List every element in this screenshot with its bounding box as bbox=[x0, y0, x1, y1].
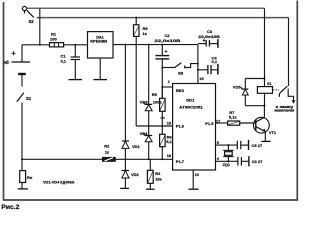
wire R1 to DA1 bbox=[64, 44, 88, 46]
wire rail down to VD1 bbox=[124, 45, 126, 141]
diode VD2 bbox=[122, 159, 140, 188]
capacitor C3 22,0x10В bbox=[198, 29, 220, 48]
wire Vcc to pin 20 bbox=[197, 45, 199, 84]
MCU DD1 AT89C2051 bbox=[173, 84, 216, 171]
ground R4 bbox=[146, 188, 155, 190]
ground pin 10 bbox=[189, 170, 199, 189]
svg-text:S2: S2 bbox=[29, 19, 35, 24]
svg-text:10к: 10к bbox=[155, 176, 161, 181]
node VD1/VD2 on P1.7 net bbox=[124, 158, 126, 160]
svg-text:RES: RES bbox=[176, 88, 185, 93]
wire XTAL2 pin 4 bbox=[216, 160, 238, 162]
svg-text:P1.5: P1.5 bbox=[205, 121, 214, 126]
wire bottom net to R2 bbox=[22, 158, 102, 160]
wire S2 to battery rail bbox=[39, 8, 41, 45]
switch S1 bbox=[17, 93, 32, 160]
svg-text:0,1: 0,1 bbox=[212, 59, 218, 64]
wire bus2 down to relay contact bbox=[288, 18, 290, 86]
svg-text:C5 27: C5 27 bbox=[252, 143, 263, 148]
resistor R6 5,1к bbox=[160, 126, 174, 159]
resistor R9 1к bbox=[134, 17, 149, 45]
resistor R1 100 bbox=[50, 32, 64, 47]
wire XTAL1 pin 5 bbox=[216, 144, 238, 146]
svg-text:C3: C3 bbox=[207, 29, 213, 34]
capacitor C5 27 bbox=[237, 140, 263, 150]
resistor Rн load bbox=[20, 159, 33, 188]
svg-text:1к: 1к bbox=[143, 31, 147, 36]
svg-text:S1: S1 bbox=[26, 96, 32, 101]
zener VD5 bbox=[233, 79, 249, 106]
wire VD5 top to relay column bbox=[245, 78, 264, 80]
capacitor C4 0,1 bbox=[198, 56, 218, 75]
wire bus1 down to relay bbox=[264, 8, 266, 86]
svg-text:22,0x10В: 22,0x10В bbox=[155, 39, 181, 43]
pin number labels bbox=[167, 77, 220, 177]
svg-text:5: 5 bbox=[217, 141, 219, 145]
crystal ZQ1 bbox=[223, 145, 234, 167]
svg-text:VD5: VD5 bbox=[233, 85, 242, 90]
resistor R7 5,1к bbox=[228, 110, 240, 125]
svg-text:5,1к: 5,1к bbox=[229, 115, 237, 120]
svg-text:Rн: Rн bbox=[27, 175, 33, 180]
node crystal taps bbox=[227, 144, 229, 146]
wire P1.6 net bbox=[136, 125, 172, 127]
svg-text:ZQ1: ZQ1 bbox=[223, 163, 230, 167]
wire +5V rail bbox=[113, 44, 198, 46]
svg-text:19: 19 bbox=[167, 121, 171, 125]
transistor VT1 bbox=[254, 106, 277, 142]
svg-text:К1: К1 bbox=[267, 82, 271, 86]
svg-text:VD2: VD2 bbox=[131, 172, 140, 177]
wire rail down to VD3 bbox=[148, 45, 150, 105]
svg-text:VD1-VD4 КД409А: VD1-VD4 КД409А bbox=[43, 179, 75, 184]
switch S2 bbox=[22, 6, 34, 24]
wire pin1 reset bbox=[162, 86, 172, 88]
wire bus1 +12V unswitched bbox=[27, 7, 265, 9]
svg-text:R5: R5 bbox=[152, 92, 158, 97]
svg-text:C6 27: C6 27 bbox=[252, 159, 263, 164]
node battery rail / S2 bbox=[39, 44, 41, 46]
svg-text:R4: R4 bbox=[155, 171, 161, 176]
node VD3 / R5 on P1.6 net bbox=[148, 125, 150, 127]
svg-text:SB: SB bbox=[178, 71, 184, 75]
svg-text:C2: C2 bbox=[165, 33, 171, 38]
voltage regulator DA1 КРЕН5 bbox=[88, 32, 114, 58]
relay contact K1.1 bbox=[273, 86, 296, 104]
wire VD5 bottom to collector node bbox=[245, 105, 264, 107]
svg-text:АТ89С2051: АТ89С2051 bbox=[179, 104, 203, 109]
node rail taps bbox=[124, 44, 163, 46]
pushbutton SB1 bbox=[162, 63, 198, 76]
border frame bbox=[4, 1, 298, 201]
svg-text:0,1: 0,1 bbox=[61, 58, 67, 63]
svg-text:18: 18 bbox=[167, 154, 171, 158]
svg-text:DD1: DD1 bbox=[186, 98, 195, 103]
svg-text:22,0x10В: 22,0x10В bbox=[198, 35, 220, 39]
ground VD2 bbox=[120, 187, 129, 189]
wire R7 to base bbox=[240, 122, 256, 124]
ground VT1 emitter bbox=[261, 140, 270, 142]
svg-text:1к: 1к bbox=[105, 150, 109, 155]
svg-text:1: 1 bbox=[168, 80, 170, 84]
capacitor C2 22,0x10В bbox=[155, 33, 181, 98]
node VD4 / R6 on P1.7 net bbox=[148, 158, 150, 160]
battery GB (Аб) bbox=[3, 45, 30, 87]
svg-text:Аб: Аб bbox=[3, 60, 9, 65]
svg-text:20: 20 bbox=[200, 77, 204, 81]
wire rail down to P1.6 net bbox=[135, 45, 137, 126]
node SB1 to Vcc column bbox=[197, 63, 199, 65]
capacitor C1 0,1 bbox=[61, 45, 81, 80]
ground C1 bbox=[69, 79, 83, 81]
ground DA1 bbox=[94, 58, 108, 80]
zener VD3 bbox=[140, 100, 152, 126]
svg-text:КРЕН8В: КРЕН8В bbox=[90, 40, 107, 44]
svg-text:Рис.2: Рис.2 bbox=[1, 204, 19, 211]
node reset net taps bbox=[161, 67, 163, 69]
wire bus2 +12V switched bbox=[37, 17, 289, 19]
svg-text:P1.7: P1.7 bbox=[176, 159, 185, 164]
node C1 tap bbox=[74, 44, 76, 46]
svg-text:VD3: VD3 bbox=[140, 100, 149, 105]
svg-text:100: 100 bbox=[50, 36, 57, 41]
svg-text:100к: 100к bbox=[153, 100, 162, 105]
node bottom left junction bbox=[21, 158, 23, 160]
resistor R2 1к bbox=[102, 144, 115, 162]
svg-text:VT1: VT1 bbox=[269, 130, 277, 135]
resistor R4 10к bbox=[147, 159, 161, 189]
capacitor C6 27 bbox=[238, 156, 263, 166]
svg-text:P1.6: P1.6 bbox=[176, 124, 185, 129]
svg-text:VD1: VD1 bbox=[132, 144, 141, 149]
relay K1 coil bbox=[257, 82, 272, 106]
svg-text:зажигания: зажигания bbox=[274, 108, 294, 112]
wire battery to R1 bbox=[22, 44, 50, 46]
resistor R5 100к bbox=[152, 87, 165, 126]
diode VD1 bbox=[122, 141, 141, 159]
ground Rн bbox=[18, 188, 28, 190]
svg-text:10: 10 bbox=[195, 173, 199, 177]
wire P1.7 net bbox=[115, 158, 172, 160]
svg-text:VD4: VD4 bbox=[140, 131, 149, 136]
svg-text:R2: R2 bbox=[104, 144, 110, 149]
zener VD4 bbox=[140, 126, 153, 159]
wire P1.6 pin 19 already drawn; wire P1.5 pin17 bbox=[216, 122, 228, 124]
